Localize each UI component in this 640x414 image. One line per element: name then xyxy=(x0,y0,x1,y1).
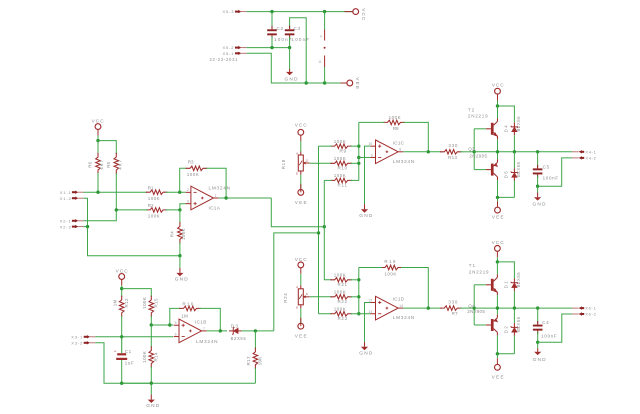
svg-text:X4-1: X4-1 xyxy=(585,149,596,154)
svg-text:IC1C: IC1C xyxy=(393,140,405,145)
supply VCC IC1B xyxy=(119,274,125,280)
svg-text:R2: R2 xyxy=(148,203,154,208)
node emitters out2 xyxy=(496,306,499,309)
svg-text:C3: C3 xyxy=(294,26,301,31)
wire IC1C output xyxy=(403,151,441,153)
node VCC split out2 xyxy=(496,260,499,263)
supply VEE out1 xyxy=(497,197,499,201)
node R15/R14 plus xyxy=(150,323,153,326)
svg-text:IC1B: IC1B xyxy=(195,319,206,324)
node R23 junction xyxy=(357,312,360,315)
svg-text:GND: GND xyxy=(533,201,547,207)
node C2 bottom xyxy=(270,46,273,49)
node C1 top xyxy=(120,335,123,338)
svg-text:100K: 100K xyxy=(142,351,147,363)
svg-text:R19: R19 xyxy=(384,259,395,264)
wire VCC to R6/R5 xyxy=(97,136,99,141)
wire D3 bottom xyxy=(513,336,515,354)
connector X3 pin X3-1 xyxy=(84,336,88,338)
connector X4 pin X4-1 xyxy=(572,151,578,153)
node C4 bottom xyxy=(536,341,539,344)
resistor R21 100K xyxy=(330,278,352,283)
svg-text:X1-1: X1-1 xyxy=(60,190,72,195)
wire gnd rail IC1B xyxy=(122,382,256,384)
wire out2 row xyxy=(474,307,572,309)
connector X5 pin X5-3 xyxy=(235,11,239,13)
potentiometer R24 xyxy=(300,274,302,286)
resistor R3 100K xyxy=(186,166,208,171)
node VCC split out1 xyxy=(496,104,499,107)
supply VEE pot R18 xyxy=(298,190,304,196)
svg-text:2: 2 xyxy=(187,188,189,192)
svg-text:GND: GND xyxy=(533,357,547,363)
wire X5-1 to VEE rail xyxy=(247,53,345,83)
svg-text:100K: 100K xyxy=(334,156,346,161)
connector X5 pin X5-2 xyxy=(235,47,239,49)
wire X4-2 route xyxy=(538,158,573,186)
connector X4 pin X4-2 xyxy=(572,157,578,159)
connector X6 pin X6-2 xyxy=(572,313,578,315)
connector X2 pin X2-1 xyxy=(72,220,76,222)
wire plus row IC1B xyxy=(151,324,173,326)
node base rail out2 xyxy=(473,306,476,309)
wire D4 bottom xyxy=(513,135,515,152)
resistor R5 4K7 xyxy=(114,153,119,175)
svg-text:VEE: VEE xyxy=(295,334,307,339)
svg-text:C4: C4 xyxy=(542,320,549,325)
svg-text:100K: 100K xyxy=(148,214,160,219)
wire T2 emitter xyxy=(497,139,499,152)
svg-text:12: 12 xyxy=(368,298,372,302)
svg-text:VCC: VCC xyxy=(116,269,129,274)
wire osc route up xyxy=(274,233,319,331)
node IC1P pin4 top xyxy=(323,10,326,13)
svg-text:VCC: VCC xyxy=(361,8,366,21)
svg-text:2N2219: 2N2219 xyxy=(468,114,488,119)
svg-text:3: 3 xyxy=(187,200,189,204)
svg-text:GND: GND xyxy=(175,276,189,282)
svg-text:X2-1: X2-1 xyxy=(60,219,72,224)
transistor T2 2N2219 xyxy=(491,123,494,135)
svg-text:BZX55: BZX55 xyxy=(516,272,521,288)
node C5 top xyxy=(536,150,539,153)
svg-text:X6-1: X6-1 xyxy=(585,306,596,311)
svg-text:100K: 100K xyxy=(142,297,147,309)
wire minus tap to pin9 xyxy=(359,156,371,158)
svg-text:C5: C5 xyxy=(543,164,550,169)
diode D1 BZX55 xyxy=(512,283,517,288)
svg-text:VCC: VCC xyxy=(492,83,505,88)
transistor Q4 2N2905 xyxy=(491,319,494,331)
svg-text:T2: T2 xyxy=(468,108,475,113)
svg-text:R10: R10 xyxy=(338,166,348,171)
wire branch D4 xyxy=(498,106,515,123)
wire pin11 xyxy=(324,67,326,83)
svg-text:X4-2: X4-2 xyxy=(585,156,596,161)
svg-text:GND: GND xyxy=(359,351,373,357)
svg-text:330: 330 xyxy=(448,143,457,148)
ground GND IC1D xyxy=(364,342,366,347)
potentiometer R18 xyxy=(300,141,302,152)
svg-text:R14: R14 xyxy=(154,352,159,361)
node R14 bottom xyxy=(150,382,153,385)
diode D4 BZX55 xyxy=(512,127,517,132)
svg-text:VEE: VEE xyxy=(355,77,360,89)
wire X3-2 to rail xyxy=(95,343,151,383)
svg-text:S: S xyxy=(306,158,308,162)
wire R21 right xyxy=(351,279,359,281)
node C5 bottom xyxy=(536,185,539,188)
svg-text:D5: D5 xyxy=(504,171,509,179)
connector X3 pin X3-2 xyxy=(84,342,88,344)
svg-text:2N2219: 2N2219 xyxy=(469,269,489,274)
svg-text:IC1D: IC1D xyxy=(393,297,405,302)
wire VEE row out1 xyxy=(498,196,515,198)
wire branch D1 xyxy=(497,262,514,279)
wire X5-2 GND net xyxy=(247,47,290,49)
connector X5 pin X5-1 xyxy=(235,52,239,54)
connector X1 pin X1-2 xyxy=(72,197,76,199)
svg-text:R18: R18 xyxy=(281,159,286,169)
svg-text:X5-2: X5-2 xyxy=(223,45,235,50)
wire IC1A output xyxy=(219,197,272,199)
svg-text:100nF: 100nF xyxy=(543,175,559,180)
svg-text:100K: 100K xyxy=(334,139,346,144)
wire D1 bottom xyxy=(513,291,515,308)
node IC1A out/R3 xyxy=(224,196,227,199)
wire Q4 emitter xyxy=(496,308,498,315)
svg-text:4: 4 xyxy=(320,35,322,39)
wire branch R15 xyxy=(122,289,152,297)
svg-text:LM324N: LM324N xyxy=(196,339,218,344)
wire Q3 base xyxy=(474,169,486,171)
svg-text:GND: GND xyxy=(359,213,373,219)
wire VCC down xyxy=(497,101,499,106)
supply VEE top xyxy=(347,80,353,86)
wire R2 to IC1A plus xyxy=(166,204,186,210)
wire IC1D minus node xyxy=(358,268,360,314)
node wire2 tap xyxy=(317,231,320,234)
node base rail out1 xyxy=(473,150,476,153)
resistor R16 1M xyxy=(179,306,201,311)
svg-text:330: 330 xyxy=(448,300,457,305)
wire R9 left xyxy=(319,145,332,147)
svg-text:BZX55: BZX55 xyxy=(231,336,247,341)
svg-text:R17: R17 xyxy=(246,356,251,365)
svg-text:4K7: 4K7 xyxy=(117,159,122,169)
svg-text:VCC: VCC xyxy=(92,119,105,124)
svg-text:X5-3: X5-3 xyxy=(223,9,235,14)
svg-text:R23: R23 xyxy=(338,316,348,321)
wire R16 right xyxy=(200,308,221,331)
resistor R22 100K xyxy=(330,295,352,300)
svg-text:R16: R16 xyxy=(182,301,193,306)
op-amp IC1D xyxy=(376,296,399,320)
svg-text:R9: R9 xyxy=(340,148,347,153)
supply VCC out2 xyxy=(495,246,501,252)
node C1 bottom xyxy=(120,382,123,385)
wire R19 right down xyxy=(401,268,428,309)
wire branch to R5 xyxy=(98,141,116,154)
resistor R17 100K xyxy=(254,331,256,349)
resistor R13 330 xyxy=(440,150,462,155)
wire common down to R4 row xyxy=(88,227,180,256)
svg-text:VCC: VCC xyxy=(492,240,505,245)
wire VCC down IC1B xyxy=(121,285,123,288)
node R22 junction xyxy=(357,295,360,298)
svg-text:100K: 100K xyxy=(148,196,160,201)
svg-text:T1: T1 xyxy=(469,263,476,268)
svg-text:A: A xyxy=(296,151,298,155)
node C4 top xyxy=(536,306,539,309)
node R21 junction xyxy=(357,278,360,281)
wire R16 left xyxy=(170,308,181,325)
node R4 top xyxy=(178,208,181,211)
svg-text:D2: D2 xyxy=(504,326,509,334)
svg-text:Q3: Q3 xyxy=(468,147,475,152)
node C3 bottom xyxy=(288,46,291,49)
wire R11 left xyxy=(324,179,331,181)
wire R23 feed xyxy=(319,313,332,315)
wire T1 emitter xyxy=(496,295,498,308)
svg-text:BZX55: BZX55 xyxy=(516,316,521,332)
connector X1 pin X1-1 xyxy=(72,191,76,193)
svg-text:GND: GND xyxy=(146,403,160,409)
capacitor C1 1uF polarized xyxy=(117,353,126,355)
wire X6-2 route xyxy=(538,314,573,342)
svg-text:100K: 100K xyxy=(334,273,346,278)
svg-text:100K: 100K xyxy=(334,173,346,178)
node R10 junction xyxy=(357,162,360,165)
svg-text:X2-2: X2-2 xyxy=(60,224,72,229)
wire R1 to IC1A minus xyxy=(166,191,186,193)
svg-text:13: 13 xyxy=(368,310,372,314)
svg-text:1M: 1M xyxy=(181,313,188,318)
wire IC1D output xyxy=(403,307,441,309)
wire Q3 emitter xyxy=(497,152,499,159)
ground GND IC1C xyxy=(364,204,366,209)
node R2/R5/X2-1 xyxy=(115,208,118,211)
wire R24 wiper to R22 xyxy=(310,296,332,298)
node R16 fb out xyxy=(219,329,222,332)
svg-text:VEE: VEE xyxy=(492,375,504,380)
wire rail to R21 xyxy=(324,227,331,280)
ground GND IC1B xyxy=(150,383,152,394)
node X1-2/X2-2 xyxy=(86,225,89,228)
wire X1-1 to R1 xyxy=(84,191,148,193)
op-amp IC1C xyxy=(376,140,399,164)
wire Q4 collector xyxy=(496,335,498,353)
resistor R14 100K xyxy=(150,325,152,348)
resistor R15 100K xyxy=(149,296,154,318)
svg-text:D4: D4 xyxy=(504,125,509,133)
svg-text:BZX55: BZX55 xyxy=(516,161,521,177)
wire IC1B output xyxy=(207,330,227,332)
svg-text:IC1A: IC1A xyxy=(209,206,221,211)
op-amp IC1B xyxy=(179,319,202,343)
svg-text:R24: R24 xyxy=(283,293,288,303)
svg-text:1uF: 1uF xyxy=(125,361,134,366)
diode D5 BZX55 xyxy=(512,173,517,178)
svg-text:R12: R12 xyxy=(124,298,129,307)
node R19 fb out xyxy=(427,306,430,309)
svg-text:4K7: 4K7 xyxy=(99,159,104,169)
wire D3 top xyxy=(513,308,515,323)
wire R18 wiper to R10 xyxy=(310,162,332,164)
node R4 bottom xyxy=(178,254,181,257)
node diodes out2 xyxy=(513,306,516,309)
wire VCC down out2 xyxy=(496,257,498,262)
wire IC1A out route down xyxy=(271,198,324,227)
ground GND out2 xyxy=(537,342,539,348)
wire base rail out1 xyxy=(473,129,475,170)
svg-text:D3: D3 xyxy=(231,324,239,329)
wire base rail out2 xyxy=(473,285,475,325)
wire Q3 collector xyxy=(497,180,499,197)
supply VCC left xyxy=(95,124,101,130)
supply VCC pot R24 xyxy=(298,262,304,268)
ground GND IC1A xyxy=(179,256,181,268)
supply VCC out1 xyxy=(495,88,501,94)
wire R19 left xyxy=(359,267,382,269)
svg-text:LM324N: LM324N xyxy=(393,159,415,164)
node C3 route VEE xyxy=(305,81,308,84)
capacitor C2 xyxy=(271,12,273,28)
svg-text:100K: 100K xyxy=(334,306,346,311)
svg-text:C2: C2 xyxy=(277,26,284,31)
svg-text:2N2905: 2N2905 xyxy=(467,309,485,314)
svg-text:1M: 1M xyxy=(113,300,118,307)
supply VEE out2 xyxy=(496,354,498,359)
wire D2 out xyxy=(242,330,274,332)
resistor R8 100K xyxy=(383,120,405,125)
supply VCC top xyxy=(353,9,359,15)
wire R9 right xyxy=(351,145,359,147)
resistor R12 1M xyxy=(121,289,123,297)
wire X2-1 to R2 node xyxy=(84,210,117,221)
diode D3 BZX55 xyxy=(234,328,239,333)
wire R3 to output xyxy=(206,168,226,198)
resistor R23 100K xyxy=(330,311,352,316)
svg-text:S: S xyxy=(306,292,308,296)
svg-text:R8: R8 xyxy=(393,126,399,131)
svg-text:5: 5 xyxy=(175,321,177,325)
svg-text:X3-2: X3-2 xyxy=(71,341,83,346)
transistor T1 2N2219 xyxy=(491,279,494,291)
ground GND top xyxy=(289,69,291,72)
wire T2 collector xyxy=(497,106,499,118)
op-amp IC1A xyxy=(191,186,214,210)
wire R7 to bases xyxy=(460,307,474,309)
svg-text:R22: R22 xyxy=(338,299,348,304)
node R8 fb out xyxy=(427,150,430,153)
wire IC1C minus node xyxy=(358,122,360,180)
svg-text:VCC: VCC xyxy=(295,257,308,262)
svg-text:D1: D1 xyxy=(504,281,509,289)
wire R10 right xyxy=(351,162,359,164)
node VCC split IC1B xyxy=(120,287,123,290)
svg-text:X5-1: X5-1 xyxy=(223,51,235,56)
capacitor C4 100nF xyxy=(537,308,539,323)
resistor R6 4K7 xyxy=(97,141,99,154)
node R16 fb tap xyxy=(168,323,171,326)
resistor R11 100K xyxy=(330,178,352,183)
svg-text:E: E xyxy=(296,305,298,309)
svg-text:7: 7 xyxy=(203,327,205,331)
svg-text:10K: 10K xyxy=(258,357,263,366)
node VEE row out1 xyxy=(496,196,499,199)
resistor R10 100K xyxy=(330,161,352,166)
wire VEE row out2 xyxy=(497,353,514,355)
svg-text:X6-2: X6-2 xyxy=(585,312,596,317)
wire T1 base xyxy=(474,284,486,286)
svg-text:100K: 100K xyxy=(389,115,401,120)
wire D5 bottom xyxy=(513,180,515,197)
resistor R7 330 xyxy=(440,306,462,311)
resistor R4 100K xyxy=(179,210,181,224)
svg-text:VCC: VCC xyxy=(295,122,308,127)
node minus tap xyxy=(357,156,360,159)
svg-text:100K: 100K xyxy=(384,271,396,276)
svg-text:6: 6 xyxy=(175,332,177,336)
node IC1P pin11 xyxy=(323,81,326,84)
node feedback tap xyxy=(178,191,181,194)
wire to GND top xyxy=(289,48,291,69)
wire R23 right pin13 xyxy=(351,313,371,315)
wire T2 base xyxy=(474,128,486,130)
wire IC1C plus to GND xyxy=(365,146,371,204)
wire R22 right xyxy=(351,296,359,298)
svg-text:A: A xyxy=(296,285,298,289)
IC1P power pins LM324 xyxy=(324,30,326,41)
wire X3-1 to minus xyxy=(95,336,173,338)
svg-text:14: 14 xyxy=(399,304,403,308)
svg-text:R1: R1 xyxy=(148,185,154,190)
wire R8 left xyxy=(359,121,385,123)
node R17 top xyxy=(254,329,257,332)
svg-text:R7: R7 xyxy=(452,311,458,316)
svg-text:VEE: VEE xyxy=(295,200,307,205)
resistor R9 100K xyxy=(330,144,352,149)
svg-text:22-23-2031: 22-23-2031 xyxy=(210,57,239,62)
svg-text:1: 1 xyxy=(215,194,217,198)
supply VEE pot R24 xyxy=(298,323,304,329)
node wire1 to R11/R21 rail xyxy=(323,225,326,228)
svg-text:11: 11 xyxy=(318,60,322,64)
svg-text:100nF: 100nF xyxy=(541,333,557,338)
capacitor C3 xyxy=(290,18,307,83)
wire X5-3 to VCC xyxy=(247,11,353,13)
svg-text:R5: R5 xyxy=(106,161,111,167)
wire R11 right xyxy=(351,179,359,181)
supply VCC pot R18 xyxy=(298,129,304,135)
svg-text:100K: 100K xyxy=(334,290,346,295)
transistor Q3 2N2905 xyxy=(491,164,494,176)
svg-text:X1-2: X1-2 xyxy=(60,196,72,201)
svg-text:X3-1: X3-1 xyxy=(71,335,83,340)
svg-text:VEE: VEE xyxy=(492,214,504,219)
svg-text:BZX55: BZX55 xyxy=(516,116,521,132)
svg-text:E: E xyxy=(296,172,298,176)
wire R8 right down xyxy=(404,122,429,151)
node VEE row out2 xyxy=(496,352,499,355)
svg-text:R15: R15 xyxy=(154,298,159,307)
node C2 top xyxy=(270,10,273,13)
svg-text:LM324N: LM324N xyxy=(209,186,231,191)
wire R13 to bases xyxy=(460,151,474,153)
node VCC split xyxy=(96,139,99,142)
wire out1 row xyxy=(474,151,572,153)
